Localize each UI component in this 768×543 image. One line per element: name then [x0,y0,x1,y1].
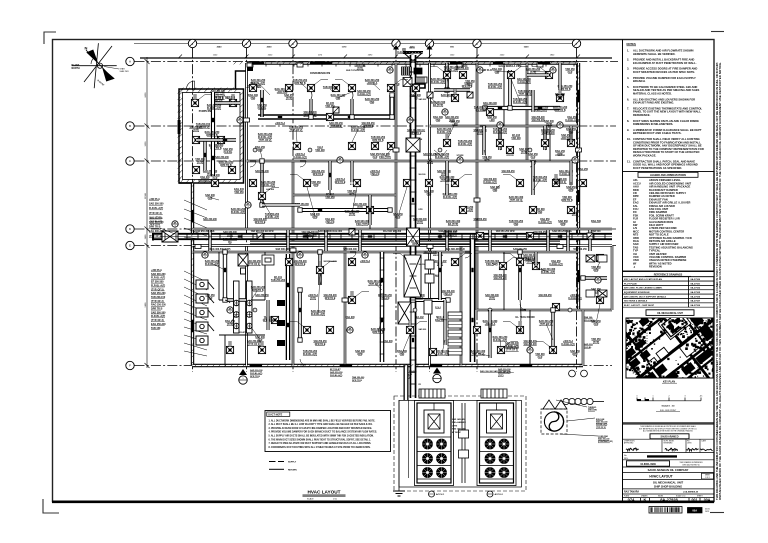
column grid bubbles with dimension line [134,43,576,45]
svg-text:EL. TECH ROOM: EL. TECH ROOM [516,316,535,319]
svg-text:1500: 1500 [524,47,530,49]
svg-text:THIS DRAWING AND THE INFORMATI: THIS DRAWING AND THE INFORMATION CONTAIN… [715,62,719,500]
svg-text:N: N [85,46,88,51]
svg-text:DPR: DPR [419,209,424,211]
svg-text:WORK PACKAGE.: WORK PACKAGE. [633,154,656,158]
svg-text:001: 001 [692,498,698,502]
left annotation stack upper [149,198,164,238]
svg-text:3. PROVIDE ACCESS DOOR AT EVER: 3. PROVIDE ACCESS DOOR AT EVERY FIRE DAM… [269,427,373,430]
top dimension ticks [190,41,195,46]
certification header box [650,434,689,439]
pump room corner step walls [236,63,247,89]
duct bottom middle room [413,298,448,302]
svg-text:SAD 950-300 FSK: SAD 950-300 FSK [195,230,214,233]
section marker bottom left [239,369,247,384]
svg-text:OIL MECHANICAL UNIT: OIL MECHANICAL UNIT [653,480,684,484]
janitor room fittings [262,255,274,265]
corridor branch drops [208,230,211,251]
svg-text:LAB RM: LAB RM [266,188,274,191]
svg-text:2: 2 [669,396,670,398]
wall hatch exterior [178,62,582,367]
return air grilles [333,107,339,113]
svg-text:RAS TANURA: RAS TANURA [624,491,639,494]
svg-text:NOT BE REPRODUCED WITHOUT PRIO: NOT BE REPRODUCED WITHOUT PRIOR WRITTEN … [639,428,698,430]
toilet right wall duct [286,254,291,360]
row grid bubbles [126,57,134,65]
duct joint ticks riser [410,60,417,384]
fresh air intake funnel [403,52,423,64]
svg-text:TAB 650-250 DPR: TAB 650-250 DPR [495,230,514,233]
svg-text:074: 074 [628,497,635,502]
svg-text:2. ALL DUCT SHALL BE G.I. LOW: 2. ALL DUCT SHALL BE G.I. LOW VELOCITY T… [269,423,373,426]
svg-text:OFFICE: OFFICE [506,155,514,157]
room detail clusters [258,133,273,142]
pump room wall hatch [179,89,244,183]
svg-text:2640: 2640 [217,46,223,49]
svg-text:1. ALL DUCTWORK DIMENSIONS ARE: 1. ALL DUCTWORK DIMENSIONS ARE IN MM AND… [269,419,376,422]
svg-text:APPROVED: APPROVED [624,441,634,444]
pump room internal duct [211,92,215,176]
duct size annotations with underlines [357,90,371,96]
svg-text:1170: 1170 [342,47,348,49]
fence line above building [140,57,612,59]
duct branch top right rooms [485,106,560,110]
svg-text:8A-27922: 8A-27922 [691,287,701,290]
unit reference bubbles [429,491,446,497]
mechanical shaft equipment stack [448,312,462,355]
reference drawings table [623,277,715,307]
svg-text:AT ROOF: AT ROOF [452,431,462,434]
more room clusters [251,79,266,88]
pump room walls [179,89,244,183]
packaged AC unit outline [417,403,451,483]
svg-text:00A: 00A [692,509,697,513]
svg-text:UNPUBLISHED WORK OF THE SAUDI: UNPUBLISHED WORK OF THE SAUDI ARABIAN OI… [718,62,722,500]
svg-text:No.: No. [624,455,627,457]
svg-text:9.: 9. [627,128,629,132]
corner trim mark top-left [44,32,56,44]
graphic scale bar [637,398,701,401]
pump room extra clusters [205,131,220,137]
svg-text:B: B [129,124,131,128]
extra diffusers pass 4 [459,71,466,78]
svg-text:SHELTER: SHELTER [120,71,130,73]
left exterior wall [191,183,194,366]
supply diffusers [191,99,198,106]
title column divider [622,40,624,502]
left annotation stack lower [151,269,166,330]
leader lines equipment [567,418,595,421]
duct down from building with earth [404,365,409,400]
ahu labels [435,274,442,277]
exhaust duct drop right [470,236,476,362]
oil mechanical unit header box [646,310,694,316]
corridor centre hairline [160,236,612,238]
main corridor supply duct [154,233,612,240]
reference drawings header [623,272,715,277]
duct dampers [238,235,242,237]
main vertical duct riser [410,55,417,236]
packaged AC unit outline [480,403,514,483]
svg-text:0: 0 [637,396,638,398]
svg-text:AIR COND. FLOW, LEGEND & ABBR.: AIR COND. FLOW, LEGEND & ABBR. [624,287,663,290]
leader lines from left stacks [184,200,207,210]
riser junction fitting [406,138,420,152]
svg-text:SECTIONS & DETAILS: SECTIONS & DETAILS [624,300,648,303]
north arrow compass [72,43,117,88]
wall opening solid bars bottom [250,364,262,367]
svg-text:SAD 1450x450: SAD 1450x450 [452,428,467,431]
svg-text:10.: 10. [627,137,631,141]
legend and abbreviations panel [623,172,715,272]
svg-text:SAUDI ARAMCO: SAUDI ARAMCO [660,436,678,439]
left stub fitting box [162,231,178,242]
door swings [250,126,536,365]
svg-text:PLANT: PLANT [72,64,80,67]
svg-text:ACCU-2: ACCU-2 [495,493,504,496]
svg-text:SHEET: SHEET [705,475,710,477]
vertical duct x382 [380,252,385,362]
unit condenser fans [485,439,496,450]
svg-text:DUCT PENETRATIONS AS SPECIFIED: DUCT PENETRATIONS AS SPECIFIED. [633,166,682,170]
flex duct connections [225,78,554,353]
unit fan coil section [424,410,444,433]
svg-text:4.: 4. [627,76,629,80]
extra clusters pass 4 [444,66,459,72]
duct in toilets [223,252,227,300]
grid line E [135,245,617,247]
svg-text:3.: 3. [627,67,629,71]
svg-text:PUMPS RM: PUMPS RM [199,111,211,113]
key plan site map [554,234,768,461]
tag circles above east wing [569,370,588,377]
svg-text:REFERENCE DRAWINGS: REFERENCE DRAWINGS [654,273,683,276]
svg-text:SAD 900: SAD 900 [419,328,427,331]
svg-text:EXH DAMPER AT DUCT PENETRATION: EXH DAMPER AT DUCT PENETRATION OF WALL. [633,61,697,65]
revision tag box [688,508,703,513]
grid vertical lines [192,48,194,372]
packaged AC unit pad [477,401,516,486]
svg-text:(TYP): (TYP) [452,425,458,427]
bottom border heavy line [52,500,714,503]
duct branch mid rooms [300,208,390,212]
svg-text:5.: 5. [627,85,629,89]
unit fan coil section [487,410,507,433]
corner trim mark bottom-left [43,499,59,513]
project number box [627,461,670,466]
legend lines [269,461,284,463]
section marker bottom middle [433,368,441,383]
svg-text:AIR FLO: AIR FLO [482,69,492,72]
svg-text:2.: 2. [627,58,629,62]
svg-text:TAB 900-300 RA DPR: TAB 900-300 RA DPR [251,230,274,233]
svg-text:HVAC LAYOUT: HVAC LAYOUT [649,474,672,478]
grid line F [135,365,613,367]
svg-text:8A-27927: 8A-27927 [691,300,701,303]
conference branch drops [309,99,312,117]
grid line D [135,228,617,230]
grid line B [135,125,617,127]
toilet partitions and fixtures [234,281,253,333]
revision deltas at grid 4 and 5 [393,45,399,50]
svg-text:SCALE: SCALE [307,497,314,500]
signature squiggles [626,448,713,451]
star shelter note [120,68,130,73]
intake plenum dense fittings [402,67,428,88]
condenser coil above unit 2 [481,389,507,398]
svg-text:DUCT NOTE: DUCT NOTE [268,414,282,417]
left dimension line with ticks [146,57,148,368]
svg-text:REFERENCE.: REFERENCE. [633,113,651,117]
annotation leader web [210,70,600,357]
corner fitting box [247,64,254,71]
svg-text:10-8001-0909: 10-8001-0909 [640,463,656,466]
signature columns [623,438,715,440]
svg-text:TAB 500: TAB 500 [591,230,601,233]
packaged AC unit pad [415,401,454,486]
svg-text:ELEC. LAYOUT – SHIP SHOP: ELEC. LAYOUT – SHIP SHOP [624,304,655,307]
svg-text:DIMENSIONS IN MILLIMETERS.: DIMENSIONS IN MILLIMETERS. [633,122,673,126]
duct elbow fittings [390,115,394,119]
svg-text:2050: 2050 [267,47,273,49]
svg-text:4. PROVIDE VOLUME DAMPER FOR E: 4. PROVIDE VOLUME DAMPER FOR EACH BRANCH… [269,431,378,434]
svg-text:ACCU-1: ACCU-1 [436,493,445,496]
svg-text:E: E [129,244,131,248]
svg-text:EXHAUST FANS ARE EXISTING.: EXHAUST FANS ARE EXISTING. [633,101,674,105]
svg-text:SAD 950-300 RAG 900: SAD 950-300 RAG 900 [318,230,343,233]
svg-text:REVIEWED: REVIEWED [664,442,674,444]
svg-text:TOILET: TOILET [238,332,246,334]
left duct stub labels [150,217,164,226]
svg-text:8A-27925: 8A-27925 [691,291,701,294]
svg-text:5. ALL SUPPLY AIR DUCTS SHALL: 5. ALL SUPPLY AIR DUCTS SHALL BE INSULAT… [269,435,375,438]
svg-text:900-500: 900-500 [419,264,426,266]
building exterior right wall [577,63,580,310]
svg-text:LOA-SERIES-09: LOA-SERIES-09 [683,491,699,494]
svg-text:FD+VCD 900-300: FD+VCD 900-300 [383,231,402,233]
duct joint ticks corridor [165,233,605,240]
AHU room dense fittings [398,255,434,324]
plant north label block [72,64,81,70]
svg-text:SUPPLY: SUPPLY [288,462,297,464]
svg-text:RETURN: RETURN [288,469,297,471]
top wall grille ticks [252,64,574,67]
svg-text:SAD 1450-450: SAD 1450-450 [452,418,466,421]
equipment tag circles [172,221,178,228]
unit condenser fans [422,439,433,450]
minor partitions [218,252,220,300]
svg-text:SAD 650-250 RAG: SAD 650-250 RAG [552,230,572,233]
svg-text:8.: 8. [627,119,629,123]
svg-text:F: F [129,364,131,368]
equipment labels right [588,407,597,412]
svg-text:HVAC LAYOUT: HVAC LAYOUT [307,490,340,495]
svg-text:1.: 1. [627,49,629,53]
corner trim mark bottom-right [710,512,724,514]
barcode sticker [649,507,682,514]
svg-text:CERT.: CERT. [687,442,692,444]
pump room corner door arc [187,81,195,89]
duct note box [265,411,391,452]
svg-text:6. THE MAIN DUCT SIZES SHOWN S: 6. THE MAIN DUCT SIZES SHOWN SHALL RUN T… [269,438,372,441]
svg-text:7.: 7. [627,106,629,110]
svg-text:CONFERENCE RM: CONFERENCE RM [310,73,330,75]
svg-text:00A: 00A [704,498,711,502]
svg-text:7. REFER TO DWG 8A-27925 FOR D: 7. REFER TO DWG 8A-27925 FOR DUCT SUPPOR… [269,442,372,445]
central pipe assembly between units [459,403,469,483]
svg-text:A: A [129,60,131,64]
svg-text:SAD 800-300 FSK: SAD 800-300 FSK [438,230,457,233]
svg-text:REVISION: REVISION [649,265,662,269]
svg-text:BETWEEN DUCT AND CABLE TRAYS.: BETWEEN DUCT AND CABLE TRAYS. [633,131,682,135]
svg-text:AIR CONDTN. DUCT SUPPORT DETAI: AIR CONDTN. DUCT SUPPORT DETAILS [624,295,667,298]
svg-text:8. COORDINATE DUCT ROUTING WIT: 8. COORDINATE DUCT ROUTING WITH ALL OTHE… [269,446,371,449]
svg-text:SHIP SHOP BUILDING: SHIP SHOP BUILDING [654,485,682,489]
flexible connector coil [563,398,604,404]
toilet stalls left [196,280,214,345]
svg-text:1 OF 1: 1 OF 1 [705,477,710,479]
exhaust fan spiral [541,409,567,434]
svg-text:HEREWITH SHALL BE VERIFIED.: HEREWITH SHALL BE VERIFIED. [633,52,676,56]
svg-text:BRANCH.: BRANCH. [633,79,646,83]
svg-text:NOTES: NOTES [627,42,636,46]
svg-text:SCALE 1 : 50: SCALE 1 : 50 [662,405,676,408]
diffuser leader lines [198,67,549,347]
drawing number row [640,498,642,502]
svg-text:6.: 6. [627,97,629,101]
svg-text:SAUDI ARABIAN OIL COMPANY: SAUDI ARABIAN OIL COMPANY [648,468,689,472]
small equipment boxes on walls [247,63,253,67]
svg-text:900-500: 900-500 [419,174,426,176]
east wing walls [579,309,613,312]
short duct stubs at diffusers [195,88,560,350]
svg-text:11.: 11. [627,159,631,163]
svg-text:2023: 2023 [705,511,709,513]
svg-text:FSK+HANGER: FSK+HANGER [452,421,466,424]
svg-text:3: 3 [685,396,686,398]
corridor return duct [250,241,560,245]
interior partition walls [245,63,248,229]
svg-text:PLOT PLAN: PLOT PLAN [624,282,637,285]
svg-text:8A-27921: 8A-27921 [691,282,701,285]
svg-text:STORE: STORE [456,155,464,157]
extra ducts top right rooms [434,88,470,92]
building exterior top wall [247,61,579,64]
wall opening bars left and right [191,210,194,222]
pump room label stacks [207,104,222,110]
svg-text:TAB 900-300: TAB 900-300 [343,248,357,251]
svg-text:MATERIAL CLASS AS NOTED.: MATERIAL CLASS AS NOTED. [633,92,672,96]
grid line A [135,61,619,63]
svg-text:OIL MECHANICAL UNIT: OIL MECHANICAL UNIT [657,312,683,315]
title block top rule [623,422,715,424]
svg-text:MULTI PURPOSE: MULTI PURPOSE [346,70,364,72]
svg-text:8A-27928: 8A-27928 [660,497,678,502]
svg-text:RAG 800-300 FLR: RAG 800-300 FLR [445,248,465,251]
svg-text:8A-27926: 8A-27926 [691,295,701,298]
svg-text:K: K [644,497,647,502]
svg-text:KEY PLAN: KEY PLAN [663,380,675,383]
svg-text:NORTH: NORTH [72,68,81,70]
svg-text:SAD 900: SAD 900 [419,98,427,101]
svg-text:▲: ▲ [633,266,636,269]
svg-text:900 B: 900 B [409,48,415,50]
toilet inlet fitting cluster [238,254,248,274]
bottom exterior wall [193,364,584,367]
svg-text:8A-27920: 8A-27920 [691,278,701,281]
corner trim mark top-right [711,31,724,33]
east wing interior detail [586,255,607,297]
svg-text:DUCT MOUNTED DEVICES AS PER SP: DUCT MOUNTED DEVICES AS PER SPEC NOTE. [633,70,695,74]
general notes list [627,49,704,170]
svg-text:KEY, LAYOUT AND LOCATION PLAN: KEY, LAYOUT AND LOCATION PLAN [624,278,662,281]
svg-text:1: 1 [653,396,654,398]
thermostat symbols [253,148,257,152]
extra dampers pass 2 [439,268,441,272]
labels below building [250,369,263,378]
duct end cap left [152,233,154,241]
wall opening solid bars top [310,62,332,65]
grid line C [135,160,617,162]
conference room duct [258,95,392,117]
svg-text:8A-27930: 8A-27930 [691,304,701,307]
equipment yard dashed enclosure [399,401,522,488]
extra duct runs pass 2 [438,252,442,300]
gravity damper symbol [543,400,567,409]
svg-text:LEGEND AND ABBREVIATIONS: LEGEND AND ABBREVIATIONS [650,174,686,177]
svg-text:TAB 500-250: TAB 500-250 [573,248,587,251]
east wing duct [583,276,607,279]
duct right mid rooms [498,126,501,150]
between units labels [452,418,467,434]
svg-text:EQUIPMENT SCHEDULE: EQUIPMENT SCHEDULE [624,292,650,294]
svg-text:11500: 11500 [145,192,147,198]
vertical duct to AHU yard [410,236,417,398]
condenser coil above unit 1 [419,389,445,398]
